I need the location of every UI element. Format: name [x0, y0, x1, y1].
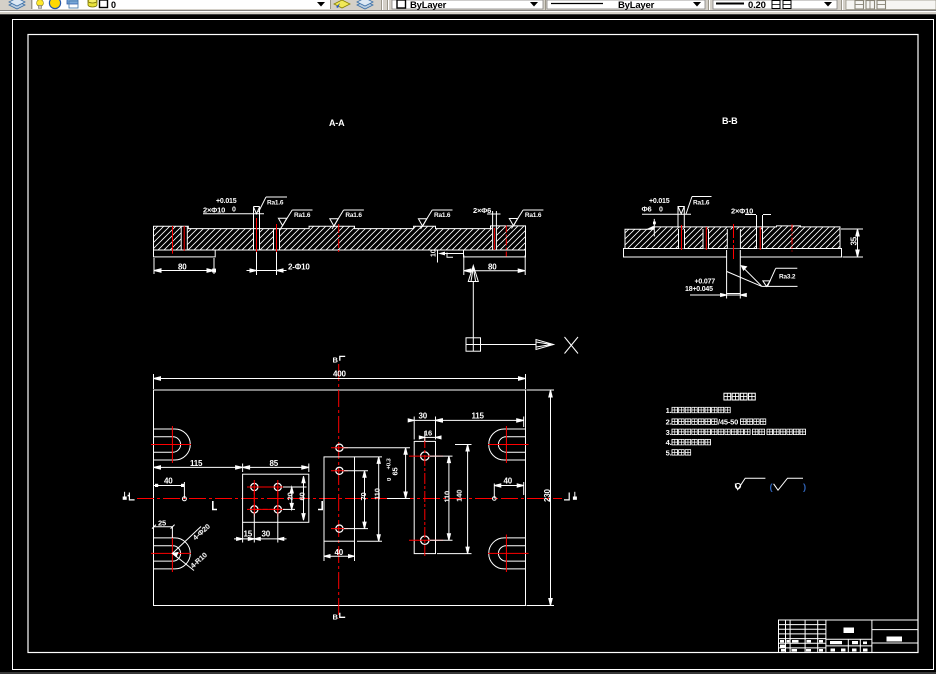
A-A bar hatched body [154, 226, 526, 250]
right cells [872, 630, 918, 643]
svg-text:Ra1.6: Ra1.6 [294, 212, 311, 219]
B-B bar hatched body [625, 226, 840, 249]
svg-text:10: 10 [431, 249, 438, 257]
svg-text:0.20: 0.20 [748, 0, 766, 11]
hole gap b3 center [727, 229, 740, 249]
flag Ra1.6 B-B [686, 197, 712, 215]
dim 30 top right group [408, 417, 441, 440]
note line 2 [666, 418, 766, 427]
ucs X axis [481, 344, 537, 346]
svg-text:40: 40 [335, 548, 344, 557]
section mark A right [564, 492, 577, 500]
callout roughness flag [259, 197, 288, 212]
svg-text:Ra1.6: Ra1.6 [434, 212, 451, 219]
half lock icon [67, 0, 78, 4]
linetype combo [547, 0, 705, 9]
callout phi6 +0.015/0 [642, 206, 691, 227]
svg-text:115: 115 [472, 412, 485, 421]
title block outline [779, 620, 919, 653]
svg-text:16: 16 [424, 429, 432, 438]
svg-text:2-Φ10: 2-Φ10 [288, 263, 310, 272]
roughness flag s3 [418, 210, 452, 229]
hole gap D [492, 211, 497, 250]
hole gap C [273, 229, 280, 250]
PLAN VIEW [123, 356, 577, 622]
layers icon button [9, 0, 25, 9]
svg-text:+0.015: +0.015 [649, 198, 670, 205]
note line 3 [666, 428, 806, 437]
svg-text:+0.077: +0.077 [695, 279, 716, 286]
svg-text:70: 70 [359, 493, 368, 501]
dim 230 right [527, 390, 555, 606]
dim 110 middle [355, 457, 383, 541]
hole gap B [253, 229, 260, 250]
svg-text:140: 140 [455, 490, 464, 502]
main horizontal centerline A-A [137, 498, 562, 500]
svg-text:5.: 5. [666, 448, 672, 457]
middle cells [826, 620, 872, 653]
svg-text:20: 20 [286, 492, 295, 500]
svg-text:Ra3.2: Ra3.2 [779, 274, 796, 281]
svg-text:2.: 2. [666, 418, 672, 427]
right group rect [414, 441, 435, 553]
svg-text:85: 85 [270, 459, 279, 468]
svg-text:2×Φ10: 2×Φ10 [731, 207, 753, 216]
roughness flag s1 [278, 210, 312, 229]
dims 15 / 30 below square [234, 514, 287, 543]
svg-text:0: 0 [232, 207, 236, 214]
dim 80 left [154, 258, 216, 274]
callout 2xPhi6 at right holes [487, 213, 501, 215]
sun icon [49, 0, 60, 9]
leader 4-R10 / 4-phi20 [172, 527, 201, 571]
make layer current button [334, 0, 350, 8]
svg-text:60: 60 [298, 492, 307, 500]
color combo [392, 0, 543, 9]
printer/cylinder icon [88, 0, 97, 7]
TECH NOTES [666, 393, 806, 493]
layer combo white field [33, 0, 330, 9]
note line 4 [666, 438, 711, 447]
dim 18 +0.077/+0.045 [690, 294, 746, 299]
UCS ICON [466, 266, 578, 354]
dims 20 / 60 right of square [283, 476, 307, 520]
main vertical centerline B-B [338, 364, 340, 619]
ucs Y axis [472, 282, 474, 338]
title JiShuYaoQiu [724, 393, 755, 400]
svg-text:4.: 4. [666, 438, 672, 447]
square group rect [243, 474, 309, 522]
left bottom plate [154, 250, 216, 257]
svg-text:18+0.045: 18+0.045 [685, 286, 713, 293]
dim 80 right [464, 255, 525, 275]
TOOLBAR [0, 0, 936, 15]
hole gap b1 [678, 229, 685, 249]
svg-text:230: 230 [543, 489, 552, 502]
drawing name text blob [844, 628, 855, 634]
step mark top-left [646, 219, 656, 237]
svg-text:): ) [803, 482, 806, 493]
svg-text:35: 35 [850, 236, 859, 245]
dim 25 bottom-left [152, 525, 175, 538]
SECTION A-A [154, 118, 544, 275]
note line 1 [666, 406, 731, 415]
section path jog right [318, 501, 322, 510]
svg-text:+0.3: +0.3 [387, 458, 393, 470]
svg-text:25: 25 [158, 519, 166, 528]
dim 140 right [437, 445, 472, 554]
svg-text:2×Φ6: 2×Φ6 [473, 206, 491, 215]
note line 5 [666, 448, 691, 457]
dim 85 [243, 464, 309, 473]
right group holes [421, 452, 429, 545]
slot bottom-left [154, 538, 191, 569]
lineweight combo [713, 0, 837, 9]
dim 40 left [154, 482, 185, 499]
svg-text:B-B: B-B [722, 116, 738, 126]
svg-text:B: B [333, 613, 339, 622]
TITLE BLOCK [779, 620, 919, 653]
top callout 2xPhi10 +0.015/0 [203, 207, 264, 230]
dropdown arrow [317, 2, 325, 7]
middle group holes [336, 444, 343, 532]
svg-text:ByLayer: ByLayer [410, 0, 447, 11]
leader + flag Ra3.2 [727, 266, 798, 287]
svg-text:ByLayer: ByLayer [618, 0, 655, 11]
X axis label [565, 337, 579, 354]
dim 110 right [430, 456, 453, 540]
color swatch [100, 0, 108, 8]
dim 400 top [154, 374, 526, 389]
plotstyle combo (disabled) [846, 0, 936, 10]
plate outline [154, 390, 526, 606]
dim 70 middle [344, 471, 368, 529]
svg-text:110: 110 [443, 491, 452, 503]
hole gap b2 [703, 229, 710, 249]
ucs origin box [466, 338, 481, 351]
red centerlines A-A holes [173, 218, 507, 273]
svg-text:3.: 3. [666, 428, 672, 437]
svg-text:/45-50: /45-50 [718, 418, 738, 427]
svg-text:Φ6: Φ6 [642, 205, 652, 214]
slot top-right [489, 429, 526, 460]
svg-text:0: 0 [111, 0, 116, 10]
red centerlines B-B [682, 224, 793, 260]
small text blobs left grid [780, 640, 868, 652]
dim 115 top right [436, 417, 524, 428]
middle group rect [324, 457, 355, 541]
left revision grid [779, 620, 826, 653]
svg-text:115: 115 [190, 459, 203, 468]
SECTION B-B [624, 116, 864, 299]
hole gap A [181, 226, 187, 250]
square group holes [251, 483, 282, 513]
dim 35 right [841, 229, 863, 257]
roughness flag s4 [509, 210, 543, 229]
svg-text:+0.015: +0.015 [216, 198, 237, 205]
callout 2xPhi10 B-B [745, 215, 771, 230]
layer previous button [357, 0, 373, 9]
central boss below [727, 250, 741, 294]
dim 2-phi10 [247, 252, 287, 275]
dim 65 +0.3/0 [344, 448, 411, 499]
svg-text:40: 40 [164, 477, 173, 486]
dim 40 right side [494, 482, 523, 499]
separator grooves [381, 0, 383, 10]
section mark A left [123, 492, 135, 500]
svg-text:2×Φ10: 2×Φ10 [203, 206, 225, 215]
bulb icon [37, 0, 44, 6]
dim 40 below middle [324, 541, 355, 561]
svg-text:400: 400 [333, 370, 346, 379]
svg-text:30: 30 [419, 412, 428, 421]
svg-text:40: 40 [504, 477, 513, 486]
svg-text:30: 30 [262, 530, 271, 539]
right bottom plate [464, 250, 526, 257]
svg-text:1.: 1. [666, 406, 672, 415]
surface finish mark 1 [735, 478, 765, 490]
section path jog left [213, 501, 217, 510]
svg-text:Ra1.6: Ra1.6 [345, 212, 362, 219]
slot bottom-right [489, 538, 526, 569]
red bolt square + crosses [247, 480, 285, 517]
window bottom edge [0, 672, 936, 674]
sheet count text blob [887, 637, 903, 642]
svg-text:Ra1.6: Ra1.6 [693, 200, 710, 207]
svg-text:15: 15 [244, 530, 253, 539]
svg-text:80: 80 [488, 263, 497, 272]
dim 115 [154, 464, 243, 473]
svg-text:0: 0 [659, 207, 663, 214]
svg-text:80: 80 [178, 263, 187, 272]
slot top-left [154, 429, 191, 460]
svg-text:Ra1.6: Ra1.6 [267, 200, 284, 207]
svg-text:110: 110 [373, 488, 382, 500]
counterbore step detail 10 [438, 250, 464, 263]
svg-text:Ra1.6: Ra1.6 [525, 212, 542, 219]
roughness flag s2 [330, 210, 364, 229]
B-B bottom plate [624, 249, 842, 258]
svg-text:A-A: A-A [329, 118, 345, 128]
dim 16 [419, 431, 441, 441]
hole gap b4 [756, 229, 763, 249]
svg-text:B: B [333, 356, 339, 365]
